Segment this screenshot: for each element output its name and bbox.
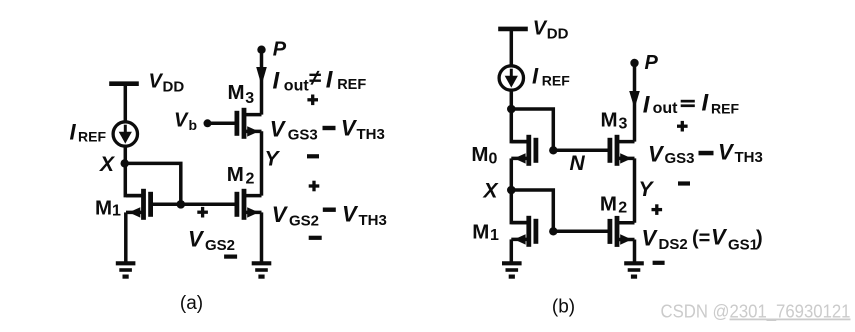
svg-text:DS2: DS2 — [659, 236, 688, 253]
svg-text:V: V — [711, 225, 728, 250]
svg-text:out: out — [284, 77, 310, 94]
svg-text:GS3: GS3 — [665, 150, 695, 167]
minus sign (VGS3-VTH3 b) — [678, 181, 690, 185]
svg-text:P: P — [273, 39, 287, 61]
svg-text:V: V — [174, 110, 189, 132]
svg-text:V: V — [272, 202, 289, 227]
transistor M1 (a) — [126, 189, 151, 220]
wire M2 source to ground (b) — [633, 240, 637, 264]
current source IREF (a) — [113, 122, 137, 146]
svg-text:V: V — [270, 117, 287, 142]
junction above M0 (b) — [507, 105, 516, 114]
svg-text:GS1: GS1 — [728, 237, 758, 254]
svg-text:V: V — [149, 71, 164, 93]
svg-text:DD: DD — [163, 79, 185, 96]
svg-text:(b): (b) — [552, 297, 575, 318]
svg-text:REF: REF — [711, 101, 739, 117]
transistor M1 (b) — [511, 216, 536, 247]
minus sign (expr a2) — [323, 208, 336, 212]
node X (b) — [507, 186, 516, 195]
output current arrow (a) — [256, 67, 267, 86]
node X (a) — [121, 159, 129, 167]
transistor M3 (a) — [237, 108, 262, 139]
wire VDD to IREF (b) — [510, 29, 514, 66]
wire gate rail M1 to M2 (a) — [153, 203, 236, 207]
svg-text:≠: ≠ — [309, 65, 321, 90]
svg-text:GS2: GS2 — [205, 237, 235, 254]
minus sign (VGS2-VTH3 a) — [309, 236, 322, 240]
svg-text:V: V — [648, 142, 665, 167]
wire X to gate rail loop (a) — [125, 163, 181, 204]
svg-text:3: 3 — [619, 116, 628, 133]
svg-text:2: 2 — [246, 171, 255, 188]
svg-text:X: X — [483, 180, 500, 203]
wire VDD to IREF (a) — [124, 84, 128, 123]
minus sign (expr b1) — [699, 151, 714, 156]
svg-text:2: 2 — [618, 200, 627, 217]
svg-text:V: V — [642, 226, 659, 251]
wire gate rail M0 to M3 (b) — [556, 149, 610, 153]
ground symbol (M2 a) — [252, 263, 272, 276]
svg-text:M: M — [471, 143, 488, 166]
wire gate rail M1 to M2 (b) — [556, 230, 610, 234]
svg-text:M: M — [95, 197, 112, 220]
svg-text:REF: REF — [78, 129, 106, 145]
svg-text:M: M — [601, 109, 618, 132]
wire X to M1 drain (b) — [511, 190, 529, 223]
svg-text:M: M — [228, 81, 245, 104]
svg-text:Y: Y — [265, 148, 281, 171]
output current arrow (b) — [629, 91, 640, 109]
ground symbol (M2 b) — [624, 263, 644, 276]
svg-text:M: M — [227, 163, 244, 186]
svg-text:CSDN @2301_76930121: CSDN @2301_76930121 — [661, 302, 851, 323]
junction node N (b) — [549, 146, 557, 154]
svg-text:DD: DD — [547, 26, 569, 43]
svg-text:TH3: TH3 — [359, 212, 387, 229]
wire Vb to M3 gate (a) — [208, 122, 237, 126]
svg-text:TH3: TH3 — [357, 126, 385, 143]
svg-text:V: V — [718, 140, 735, 165]
wire M2 drain to Y (b) — [633, 158, 637, 222]
wire M1 source to ground (a) — [124, 212, 128, 263]
svg-text:V: V — [341, 116, 358, 141]
VDD supply bar (fig a) — [109, 81, 139, 86]
svg-text:b: b — [189, 117, 198, 133]
plus sign (VDS2 b) — [652, 204, 663, 215]
ground symbol (M1 b) — [502, 263, 522, 276]
wire M3 drain to P (b) — [633, 63, 637, 142]
minus sign (VGS2 a) — [224, 255, 237, 259]
junction gate rail (a) — [177, 200, 186, 209]
equals sign (b) — [681, 100, 695, 103]
transistor M0 (b) — [511, 135, 536, 166]
svg-text:X: X — [99, 153, 116, 176]
svg-text:TH3: TH3 — [735, 149, 763, 166]
svg-text:V: V — [342, 202, 359, 227]
svg-text:): ) — [756, 228, 763, 250]
minus sign (expr a1) — [323, 126, 336, 130]
plus sign (VGS2-VTH3 a) — [309, 181, 320, 192]
VDD supply bar (fig b) — [498, 27, 528, 32]
svg-text:Y: Y — [639, 178, 655, 201]
wire M2 source to ground (a) — [260, 212, 264, 263]
transistor M3 (b) — [610, 135, 635, 166]
svg-text:I: I — [532, 64, 539, 89]
junction gate rail (b) — [549, 227, 557, 235]
svg-text:N: N — [570, 152, 586, 175]
svg-text:1: 1 — [112, 203, 121, 220]
wire IREF to M0 drain (b) — [511, 90, 529, 142]
minus sign (VDS2 b) — [653, 261, 665, 265]
wire M2 drain to Y (a) — [260, 131, 264, 195]
svg-text:0: 0 — [489, 151, 498, 168]
wire junction to node N loop (b) — [511, 109, 553, 150]
wire IREF to node X to M1 drain (a) — [125, 146, 144, 196]
ground symbol (M1 a) — [116, 263, 136, 276]
wire M3 drain to P (a) — [260, 50, 264, 115]
node P (a) — [257, 46, 265, 54]
svg-text:GS2: GS2 — [289, 213, 319, 230]
svg-text:1: 1 — [490, 227, 499, 244]
plus sign (VGS2 a) — [197, 207, 208, 218]
minus sign (VGS3-VTH3 a) — [307, 154, 319, 158]
plus sign (VGS3-VTH3 b) — [677, 121, 688, 132]
svg-text:(a): (a) — [180, 293, 203, 314]
svg-text:(=: (= — [692, 228, 710, 250]
transistor M2 (a) — [237, 189, 262, 220]
svg-text:M: M — [600, 193, 617, 216]
svg-text:P: P — [645, 52, 659, 74]
wire M0 source to X (b) — [510, 158, 514, 190]
svg-text:V: V — [188, 227, 205, 252]
svg-text:REF: REF — [337, 77, 366, 93]
svg-text:out: out — [653, 100, 679, 117]
svg-text:M: M — [472, 221, 489, 244]
wire M1 source to ground (b) — [510, 239, 514, 263]
plus sign (VGS3-VTH3 a) — [307, 95, 318, 106]
svg-text:REF: REF — [542, 73, 570, 89]
wire X to gate rail loop (b) — [511, 190, 553, 231]
transistor M2 (b) — [610, 216, 635, 247]
current source IREF (b) — [499, 66, 523, 90]
svg-text:I: I — [70, 120, 77, 145]
node Vb terminal (a) — [204, 119, 212, 127]
svg-text:3: 3 — [245, 90, 254, 107]
svg-text:V: V — [533, 18, 548, 40]
node P (b) — [630, 59, 638, 67]
svg-text:GS3: GS3 — [288, 127, 318, 144]
